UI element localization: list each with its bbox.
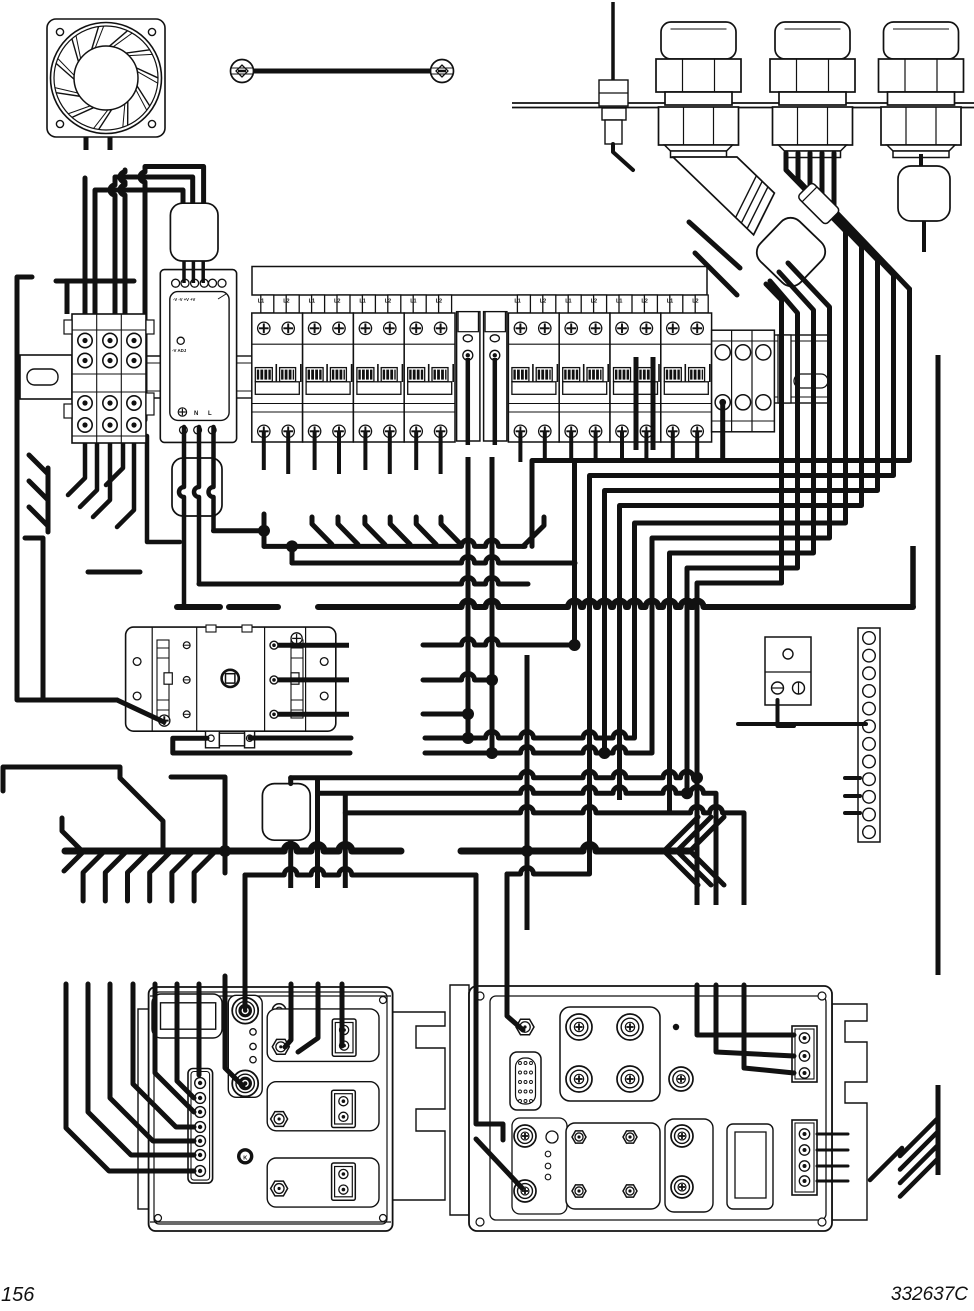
svg-text:L1: L1 — [410, 299, 416, 305]
svg-text:N: N — [194, 411, 198, 417]
svg-text:L2: L2 — [436, 299, 442, 305]
svg-text:L1: L1 — [616, 299, 622, 305]
svg-text:L2: L2 — [334, 299, 340, 305]
svg-text:L2: L2 — [385, 299, 391, 305]
svg-text:L1: L1 — [309, 299, 315, 305]
svg-text:L: L — [208, 411, 212, 417]
svg-text:L2: L2 — [591, 299, 597, 305]
svg-text:K: K — [243, 1155, 247, 1161]
svg-text:L2: L2 — [692, 299, 698, 305]
svg-text:332637C: 332637C — [891, 1284, 968, 1305]
svg-text:-V ADJ: -V ADJ — [172, 348, 187, 353]
svg-text:L2: L2 — [641, 299, 647, 305]
svg-text:L1: L1 — [667, 299, 673, 305]
svg-text:-V -V +V +V: -V -V +V +V — [173, 297, 196, 302]
svg-text:L1: L1 — [258, 299, 264, 305]
svg-text:L2: L2 — [540, 299, 546, 305]
svg-text:L1: L1 — [514, 299, 520, 305]
svg-text:L2: L2 — [283, 299, 289, 305]
svg-text:L1: L1 — [359, 299, 365, 305]
svg-text:L1: L1 — [565, 299, 571, 305]
svg-text:156: 156 — [1, 1284, 35, 1306]
